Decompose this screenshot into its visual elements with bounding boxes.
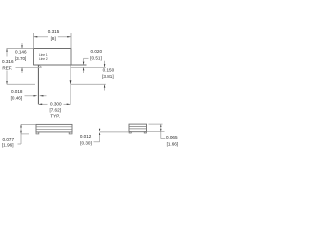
svg-text:0.146: 0.146	[15, 50, 27, 55]
svg-text:[0.46]: [0.46]	[11, 95, 23, 100]
package body outline (front view)	[33, 49, 86, 66]
svg-text:0.316: 0.316	[2, 59, 14, 64]
svg-text:0.012: 0.012	[80, 134, 92, 139]
side view foot left	[36, 132, 39, 134]
board line right	[71, 83, 106, 85]
svg-text:TYP.: TYP.	[50, 113, 60, 118]
dimension 0.018 [0.46] pin width	[11, 89, 47, 100]
side view body (bottom-right)	[129, 124, 147, 132]
svg-text:[8]: [8]	[51, 36, 56, 41]
pin 2 extension line	[70, 66, 72, 105]
svg-text:[0.51]: [0.51]	[90, 55, 102, 60]
seating plane line left	[16, 66, 42, 68]
svg-text:[0.30]: [0.30]	[80, 140, 92, 145]
dimension 0.146 [3.70] body height	[7, 43, 34, 73]
svg-text:0.018: 0.018	[11, 89, 23, 94]
svg-text:[1.66]: [1.66]	[167, 141, 179, 146]
dimension 0.077 [1.96] side height	[2, 124, 36, 147]
svg-text:[1.96]: [1.96]	[2, 142, 14, 147]
svg-text:0.300: 0.300	[50, 101, 62, 106]
foot left (bottom-right view)	[129, 132, 131, 133]
seating plane line right	[71, 66, 106, 68]
dimension 0.150 [3.81] pin length	[102, 61, 114, 91]
svg-text:0.077: 0.077	[3, 137, 15, 142]
svg-text:0.150: 0.150	[103, 68, 115, 73]
board line left	[7, 83, 35, 85]
dimension 0.316 REF overall height	[2, 49, 14, 85]
svg-text:Line 2: Line 2	[39, 57, 48, 61]
dimension 0.315 [8] top width	[34, 29, 72, 41]
dimension 0.300 [7.62] TYP pin spacing	[38, 101, 70, 118]
extension lines above body	[33, 33, 35, 49]
side view foot right	[69, 132, 72, 134]
pin 1 shoulder hook	[39, 65, 42, 67]
svg-text:REF.: REF.	[2, 65, 12, 70]
svg-text:[3.81]: [3.81]	[102, 74, 114, 79]
side view body (bottom-left)	[36, 124, 72, 131]
svg-text:0.315: 0.315	[48, 29, 60, 34]
pin 1	[37, 65, 39, 104]
svg-text:0.065: 0.065	[166, 135, 178, 140]
svg-text:[3.70]: [3.70]	[15, 56, 27, 61]
svg-text:0.020: 0.020	[91, 49, 103, 54]
svg-text:[7.62]: [7.62]	[49, 108, 61, 113]
dimension 0.020 [0.51] standoff	[83, 49, 103, 73]
foot right (bottom-right view)	[144, 132, 146, 133]
dimension 0.065 [1.66] right view height	[147, 124, 179, 146]
left lead (bottom-right view)	[100, 131, 129, 133]
dimension 0.012 [0.30] lead thickness	[80, 129, 100, 146]
